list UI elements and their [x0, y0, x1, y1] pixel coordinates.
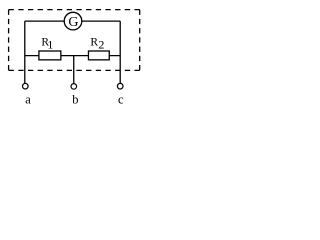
dashed enclosure box left edge [8, 10, 10, 71]
galvanometer G [64, 12, 82, 30]
svg-text:1: 1 [47, 37, 53, 51]
svg-text:c: c [118, 92, 124, 106]
wire: right vertical from top wire down to terminal c [119, 21, 121, 84]
dashed enclosure box top edge [9, 9, 140, 11]
svg-text:b: b [72, 92, 78, 106]
wire: left vertical from top wire down to terminal a [24, 21, 26, 84]
svg-text:G: G [68, 15, 78, 30]
wire: lead from node b junction down to terminal b [73, 56, 75, 84]
dashed enclosure box bottom edge [9, 69, 140, 71]
resistor R2 [88, 51, 109, 60]
wire: top horizontal from left vertical to galvanometer and on to right vertical [25, 20, 120, 22]
svg-text:a: a [25, 92, 31, 106]
svg-text:2: 2 [98, 37, 104, 51]
svg-text:R: R [90, 36, 98, 48]
terminal c [117, 83, 123, 89]
wire: middle horizontal through R1 and R2 [25, 55, 120, 57]
resistor R1 [39, 51, 61, 60]
terminal a [23, 83, 29, 89]
dashed enclosure box right edge [139, 10, 141, 71]
terminal b [71, 84, 77, 90]
